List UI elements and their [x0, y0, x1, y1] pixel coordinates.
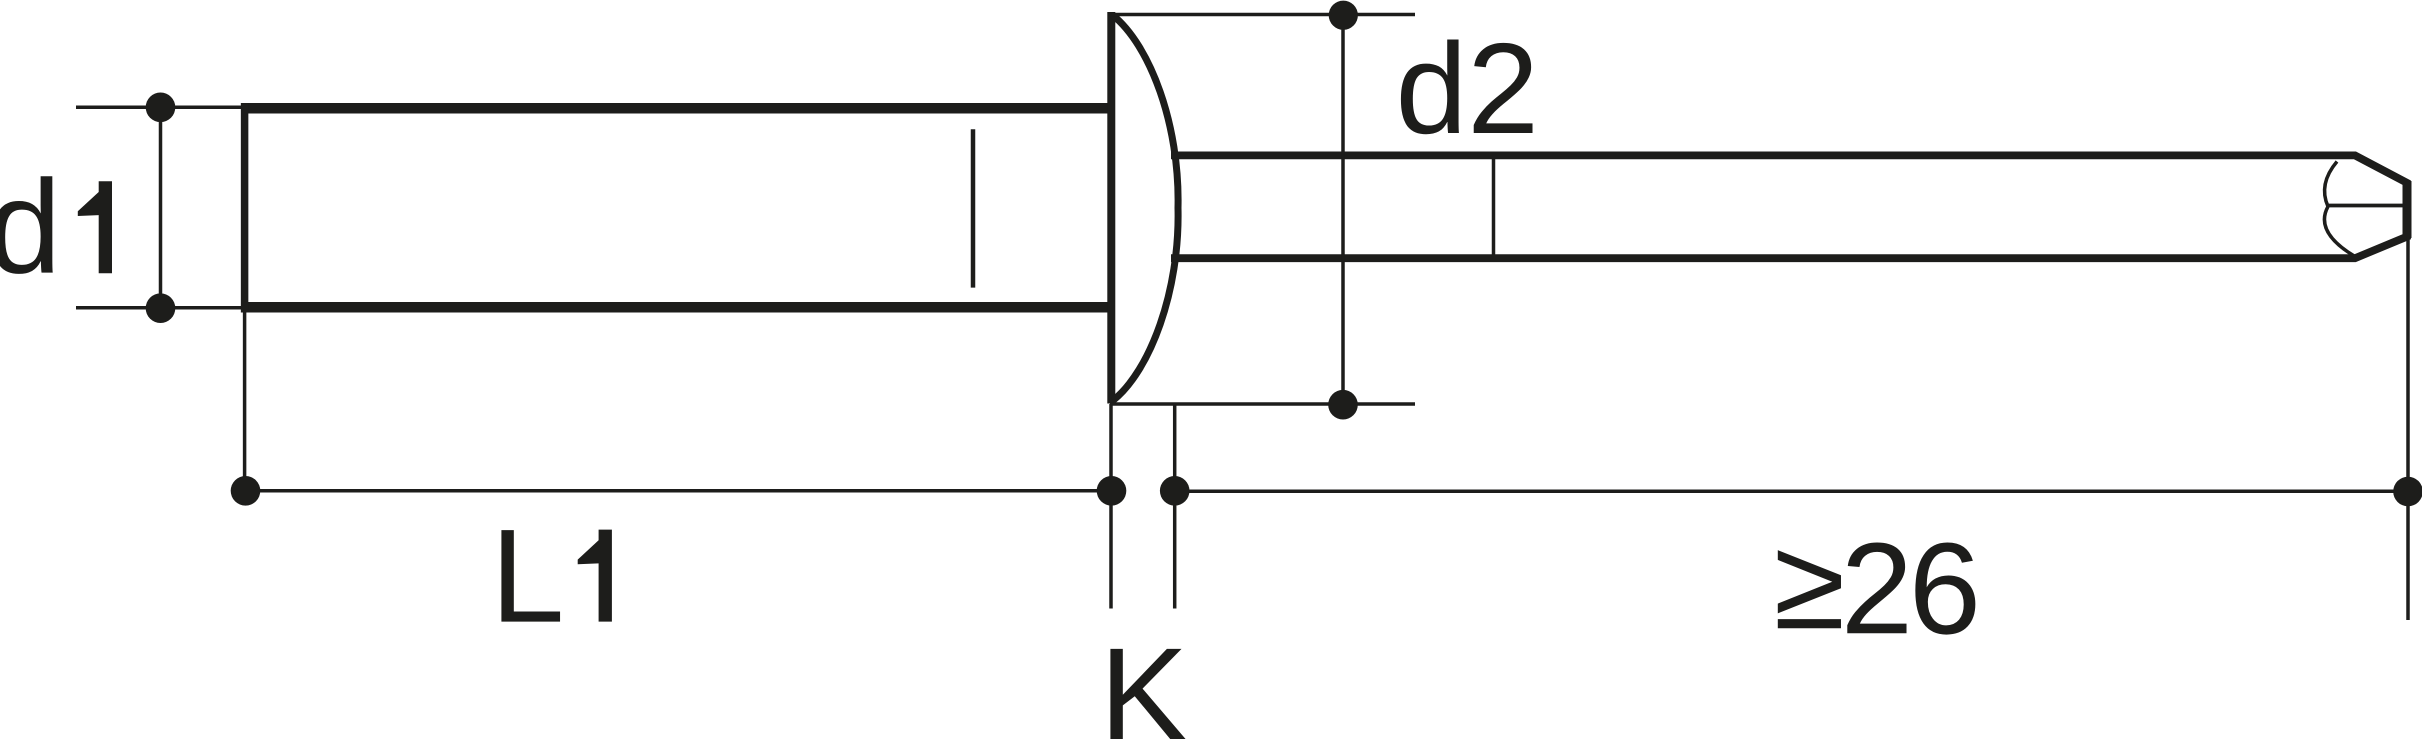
svg-text:d2: d2	[1396, 17, 1540, 161]
svg-text:d: d	[0, 154, 61, 302]
svg-text:≥26: ≥26	[1774, 510, 1977, 661]
svg-text:L: L	[491, 503, 565, 651]
svg-text:K: K	[1100, 621, 1189, 739]
